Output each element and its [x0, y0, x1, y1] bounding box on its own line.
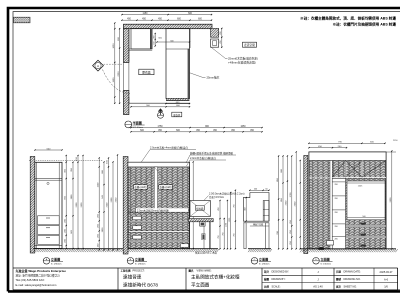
elevation B drawer rows [129, 221, 189, 222]
svg-text:桌面,山毛A,B,C 木皮: 桌面,山毛A,B,C 木皮 [195, 250, 218, 254]
vanity left dim [234, 190, 236, 248]
svg-text:DRAWING NO.: DRAWING NO. [344, 278, 361, 281]
svg-text:2025.03.27: 2025.03.27 [380, 270, 394, 274]
svg-text:+4/8mm灰玻(面貼灰鏡): +4/8mm灰玻(面貼灰鏡) [228, 61, 256, 65]
svg-text:1050: 1050 [113, 43, 115, 49]
elevation A plinth [35, 245, 62, 247]
elevation A drawer 3 [38, 235, 60, 244]
svg-text:圖號: 圖號 [336, 277, 342, 281]
vanity section drawer box [200, 222, 205, 226]
elevation A ceiling dotted line [29, 160, 103, 162]
bottom long dimension chain row 2 [131, 131, 262, 133]
svg-text:立面圖: 立面圖 [51, 256, 60, 261]
svg-text:VIEW NAME:: VIEW NAME: [197, 269, 212, 272]
svg-text:450: 450 [244, 207, 246, 210]
svg-text:主臥開放式衣櫃+化妝檯: 主臥開放式衣櫃+化妝檯 [191, 274, 240, 281]
vanity left leg [244, 223, 246, 249]
plan right wall segment [189, 29, 191, 48]
svg-text:2B0: 2B0 [335, 212, 338, 214]
label box right of section marker [172, 112, 182, 117]
plan tall cabinet bottom hatch band [166, 98, 189, 100]
vanity elevation top dim [250, 189, 269, 191]
svg-text:化妝鏡: 化妝鏡 [196, 206, 204, 210]
plan closet bottom line [129, 48, 152, 50]
svg-text:DESIGNED BY:: DESIGNED BY: [272, 271, 290, 274]
plan left dimension lines [114, 23, 116, 103]
svg-text:DRAWN DATE:: DRAWN DATE: [344, 271, 362, 274]
svg-text:S: 1/30mm: S: 1/30mm [259, 263, 270, 265]
svg-text:頁次: 頁次 [335, 284, 342, 288]
elevation D divider white strip [330, 161, 332, 249]
elevation D body grain [309, 152, 386, 249]
svg-text:2.0/5.0cm木芯板(山毛A,B,C 2cm): 2.0/5.0cm木芯板(山毛A,B,C 2cm) [209, 192, 245, 196]
vanity elevation outline [243, 193, 269, 222]
svg-text:1150: 1150 [113, 77, 115, 82]
svg-text:2.0cm木芯板25mm(白橡)竹節: 2.0cm木芯板25mm(白橡)竹節 [137, 208, 169, 212]
svg-text:SCALE:: SCALE: [272, 285, 281, 288]
title block verticals [117, 268, 119, 290]
svg-text:平面圖: 平面圖 [133, 120, 142, 125]
title block row lines [262, 274, 398, 276]
elevation A drawer 1 [38, 216, 60, 225]
plan interior horizontal dim [157, 41, 190, 43]
title block sub verticals [301, 268, 303, 290]
elevation D top band diagonals [332, 161, 386, 178]
elevation A floor [33, 248, 218, 250]
elevation D floor [300, 248, 396, 250]
elevation B body grain fill [128, 162, 190, 248]
plan interior dim annotations [154, 34, 156, 47]
vanity narrow cabinet right [263, 201, 269, 222]
elevation A drawer 2 [38, 226, 60, 235]
elevation D white top rail [309, 152, 386, 161]
elevation D lower drawer separators [346, 225, 387, 227]
elevation D top band dividers [345, 161, 346, 178]
plan room bottom dim [131, 106, 190, 108]
plan left wall door jamb lines [123, 63, 125, 91]
bottom long dimension chain row 1 [131, 127, 262, 129]
elevation B kick label [181, 244, 189, 247]
elevation D top dim row 1 [309, 142, 385, 144]
elevation B left dimension stack [98, 158, 100, 250]
svg-text:日期: 日期 [336, 270, 342, 274]
plan leader 2 [190, 73, 206, 78]
plan cabinet bottom dim ticks [166, 103, 190, 105]
svg-text:遠雄晉連: 遠雄晉連 [123, 274, 142, 281]
svg-text:A-6: A-6 [384, 277, 389, 281]
svg-text:S: 1/30mm: S: 1/30mm [51, 263, 62, 265]
elevation B top rail [128, 162, 190, 167]
svg-text:S: 1/30mm: S: 1/30mm [135, 263, 146, 265]
svg-text:更衣區: 更衣區 [173, 113, 181, 117]
plan tall cabinet right double edge [188, 49, 190, 99]
view label A [43, 258, 50, 265]
svg-text:25mmE木芯板(噴白色漆): 25mmE木芯板(噴白色漆) [228, 57, 258, 61]
vanity section handle smudge [202, 234, 205, 240]
svg-text:AS 1:40: AS 1:40 [313, 285, 323, 289]
svg-text:25mm柚木: 25mm柚木 [207, 76, 220, 80]
elevation A cabinet outline [35, 162, 62, 248]
elevation B right dim [192, 162, 194, 249]
vanity section mirror box [190, 201, 210, 217]
svg-text:1150: 1150 [143, 13, 149, 15]
svg-text:2B0: 2B0 [335, 198, 338, 200]
plan left wall hatched upper [124, 29, 129, 63]
plan view top dimension chain row 1 [122, 14, 212, 16]
corridor label box [243, 42, 257, 47]
elevation D top dim row 2 [309, 147, 347, 149]
svg-text:1050: 1050 [240, 126, 246, 128]
svg-text:DRAWN BY:: DRAWN BY: [272, 278, 286, 281]
svg-text:2350: 2350 [118, 71, 120, 77]
svg-text:比例: 比例 [264, 284, 270, 288]
plan corner structure outside wall end [211, 28, 219, 37]
marker to wall dashed tie [104, 63, 124, 65]
vanity section side panel [209, 222, 211, 249]
plan tall cabinet [166, 29, 190, 99]
view label B [127, 258, 134, 265]
plan corner structure dim line [221, 28, 223, 47]
elevation marker A diamond [93, 60, 104, 71]
vanity section dims [219, 201, 221, 249]
elevation D wall hatch [304, 156, 308, 254]
svg-text:SHEET NO.: SHEET NO. [344, 285, 358, 288]
svg-text:S: 1/30mm: S: 1/30mm [320, 263, 331, 265]
view label C [251, 258, 258, 265]
elevation A side panels [36, 162, 38, 248]
elevation B wall hatch [123, 157, 128, 255]
elevation A top dim [35, 149, 62, 151]
vanity mid dim tick [245, 198, 247, 222]
vanity section desk slab hatched [188, 219, 213, 222]
elevation B LED label boxes [134, 185, 148, 189]
svg-text:圖名: 圖名 [189, 268, 195, 272]
svg-text:1/6: 1/6 [384, 285, 388, 289]
plan room interior outline [129, 29, 190, 104]
svg-text:2B0: 2B0 [335, 226, 338, 228]
svg-text:遠雄新時代 B678: 遠雄新時代 B678 [123, 281, 158, 288]
svg-text:更衣區: 更衣區 [142, 70, 151, 75]
plan view label [125, 121, 132, 128]
elevation D kick label [327, 241, 334, 246]
svg-text:台面下15.5cm: 台面下15.5cm [209, 195, 224, 199]
plan walk-in label box [139, 69, 154, 75]
svg-text:2.0cm木芯板+4mm夾板(白橡)染白: 2.0cm木芯板+4mm夾板(白橡)染白 [150, 146, 188, 150]
svg-text:1750: 1750 [157, 126, 163, 128]
plan leader to note right [212, 48, 228, 59]
vanity right panel [265, 223, 269, 249]
title block frame [13, 267, 398, 269]
elevation A wall hatch [30, 157, 35, 254]
plan closet rect top-left [131, 29, 150, 50]
vanity elevation floor [248, 248, 271, 250]
elevation D left dim stack [278, 156, 280, 249]
elevation D top band [332, 177, 386, 178]
elevation A hanging rod [47, 182, 49, 184]
svg-text:先進企業 Wago Products Enterprise: 先進企業 Wago Products Enterprise [16, 268, 67, 273]
elevation B centre stile [154, 167, 157, 212]
elevation D base smudge [319, 247, 325, 250]
svg-text:150h: 150h [358, 185, 362, 187]
elevation B door diagonals [129, 167, 189, 211]
svg-text:平立面圖: 平立面圖 [191, 281, 210, 288]
svg-text:繪圖: 繪圖 [263, 277, 270, 281]
elevation D shelf stack column [332, 178, 345, 248]
elevation D drawer handles [361, 223, 366, 225]
svg-text:PROJECT:: PROJECT: [133, 269, 145, 272]
elevation A top shelf [35, 178, 62, 180]
plan left wall hatched end cap [124, 91, 129, 115]
svg-text:※註：衣櫃門片及抽屜頭使用 ABS 封邊: ※註：衣櫃門片及抽屜頭使用 ABS 封邊 [333, 22, 397, 27]
view label D [313, 258, 320, 265]
plan top wall hatched band [124, 24, 213, 29]
svg-text:立面圖: 立面圖 [259, 256, 268, 261]
section marker triangle below plan [158, 112, 164, 118]
svg-text:E-mail: sakreyangel@hotmail.co: E-mail: sakreyangel@hotmail.com [16, 283, 58, 287]
vanity section thin leg [203, 226, 205, 249]
door swing dashed arc [103, 70, 131, 94]
svg-text:2.0cm木芯板(白橡)染白: 2.0cm木芯板(白橡)染白 [190, 156, 216, 160]
svg-text:※註：衣櫃主體為開放式，頂、底、側板均需使用 ABS 封邊: ※註：衣櫃主體為開放式，頂、底、側板均需使用 ABS 封邊 [300, 16, 396, 21]
svg-text:2B0: 2B0 [335, 239, 338, 241]
vanity desk top [243, 220, 269, 222]
plan view top dimension chain row 2 [122, 19, 212, 21]
svg-text:地址: 新竹市經國路二段97號(2樓之2): 地址: 新竹市經國路二段97號(2樓之2) [16, 274, 60, 278]
elevation D right dim [391, 151, 393, 249]
svg-text:工程名稱: 工程名稱 [121, 268, 132, 272]
vanity under-desk line + text [250, 225, 269, 227]
elevation D mirror panel [347, 181, 385, 220]
svg-text:2B0: 2B0 [335, 184, 338, 186]
svg-text:A: A [97, 64, 99, 68]
svg-text:鏡櫃+層板手把五金-廠商提供 抽屜滑軌: 鏡櫃+層板手把五金-廠商提供 抽屜滑軌 [190, 151, 233, 155]
svg-text:立面圖: 立面圖 [135, 256, 144, 261]
svg-text:TEL:(03)-545-5803 FAX:: TEL:(03)-545-5803 FAX: [16, 278, 46, 282]
legend hatched box [14, 17, 31, 23]
svg-text:走道空間: 走道空間 [244, 43, 255, 47]
vanity mirror label [195, 206, 204, 210]
elevation B mid leader band [136, 208, 188, 212]
elevation A right dimension stack [65, 156, 67, 249]
elevation B drawer labels [133, 216, 141, 220]
svg-text:設計: 設計 [264, 270, 270, 274]
svg-text:立面圖: 立面圖 [320, 256, 329, 261]
plan closet right double edge [150, 29, 152, 50]
